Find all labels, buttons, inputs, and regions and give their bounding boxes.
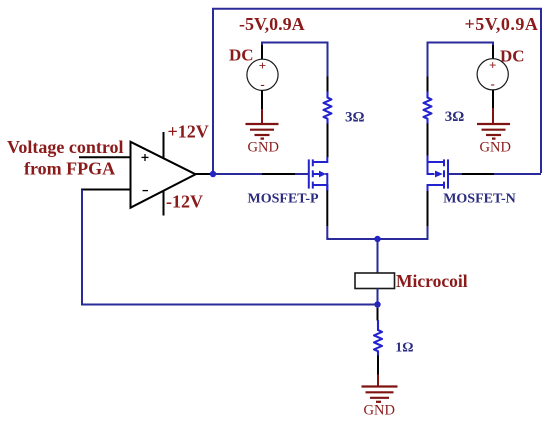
label Microcoil — [396, 271, 468, 291]
wire: black lead from loop to left DC source — [261, 45, 263, 60]
svg-text:-5V,0.9A: -5V,0.9A — [239, 14, 305, 34]
svg-text:-: - — [260, 76, 264, 91]
label DC (right) — [500, 47, 525, 66]
wire: MOSFET-N source drop (blue-black-blue) — [427, 185, 429, 238]
wire: black drop above resistor R2 — [427, 77, 429, 93]
label GND (left) — [248, 140, 279, 156]
label from FPGA — [24, 159, 115, 179]
ground (left DC) — [246, 124, 279, 139]
wire: feedback to op-amp inverting input — [82, 190, 378, 305]
svg-text:3Ω: 3Ω — [445, 109, 465, 125]
resistor R1 3ohm (left) — [324, 92, 332, 125]
wire: black lead below left DC source — [261, 91, 263, 111]
wire: black drop from R2 to MOSFET-N drain — [427, 124, 429, 157]
wire: op-amp positive supply stub — [163, 132, 165, 159]
wire: black lead below right DC source — [492, 90, 494, 109]
ground (right DC) — [477, 124, 510, 139]
wire: MOSFET-P source drop (blue-black-blue) — [326, 185, 328, 238]
label MOSFET-N — [443, 191, 516, 206]
transistor MOSFET-P — [309, 157, 328, 191]
svg-text:1Ω: 1Ω — [395, 341, 413, 356]
svg-text:-12V: -12V — [166, 192, 203, 212]
node: op-amp output junction — [210, 171, 216, 177]
wire: maroon lead into left ground — [261, 109, 263, 124]
svg-text:MOSFET-P: MOSFET-P — [248, 191, 319, 206]
label 3ohm (right) — [445, 109, 465, 125]
svg-text:+: + — [489, 58, 496, 73]
svg-text:Microcoil: Microcoil — [396, 271, 468, 291]
microcoil L1 — [355, 273, 395, 289]
wire: microcoil to lower node — [377, 289, 379, 306]
wire: junction down to microcoil — [377, 239, 379, 274]
label DC (left) — [229, 46, 254, 65]
svg-text:+5V,0.9A: +5V,0.9A — [465, 14, 539, 34]
resistor R3 1ohm — [374, 320, 382, 356]
label 3ohm (left) — [345, 109, 365, 125]
wire: node to MOSFET-P gate (blue-black-blue) — [213, 173, 308, 175]
wire: bottom rail joining both sources — [327, 237, 427, 239]
svg-text:Voltage control: Voltage control — [7, 137, 124, 157]
label GND (right) — [480, 140, 511, 156]
wire: op-amp negative supply stub — [163, 191, 165, 216]
op-amp U1 — [131, 142, 196, 208]
wire: right DC loop top rail — [428, 43, 494, 77]
svg-text:DC: DC — [229, 46, 254, 65]
label +5V,0.9A — [465, 14, 539, 34]
wire: non-inverting input from FPGA — [79, 156, 131, 158]
node: feedback junction — [374, 301, 380, 307]
wire: inverting input line — [81, 189, 131, 191]
label Voltage control — [7, 137, 124, 157]
wire: black lead from R3 down — [377, 356, 379, 376]
label +12V — [168, 122, 209, 142]
svg-text:3Ω: 3Ω — [345, 109, 365, 125]
svg-text:GND: GND — [480, 140, 511, 156]
wire: left DC loop top rail — [262, 43, 328, 77]
wire: black lead from loop to right DC source — [492, 45, 494, 59]
ground (bottom) — [362, 387, 398, 402]
svg-text:-: - — [491, 76, 495, 91]
svg-text:from FPGA: from FPGA — [24, 159, 115, 179]
wire: op-amp output to node — [196, 173, 213, 175]
transistor MOSFET-N — [428, 156, 449, 192]
wire: maroon lead into bottom ground — [377, 375, 379, 387]
wire: black drop from R1 to MOSFET-P drain — [327, 124, 329, 158]
svg-text:+: + — [259, 58, 266, 73]
svg-text:GND: GND — [248, 140, 279, 156]
wire: maroon lead into right ground — [492, 108, 494, 124]
wire: top frame from op-amp output node up, across top, down right side — [213, 9, 541, 174]
resistor R2 3ohm (right) — [424, 92, 432, 125]
label -5V,0.9A — [239, 14, 305, 34]
label 1ohm — [395, 341, 413, 356]
svg-text:GND: GND — [364, 403, 395, 419]
wire: MOSFET-N gate to right frame (blue-black-blue) — [449, 173, 541, 175]
wire: black drop above resistor R1 — [327, 77, 329, 93]
DC source V1 (left) — [247, 58, 278, 91]
label GND (bottom) — [364, 403, 395, 419]
label MOSFET-P — [248, 191, 319, 206]
wire: node down to resistor R3 (blue then black) — [377, 305, 379, 321]
DC source V2 (right) — [477, 58, 508, 91]
svg-text:+12V: +12V — [168, 122, 209, 142]
node: source junction — [374, 236, 380, 242]
svg-text:MOSFET-N: MOSFET-N — [443, 191, 516, 206]
label -12V — [166, 192, 203, 212]
